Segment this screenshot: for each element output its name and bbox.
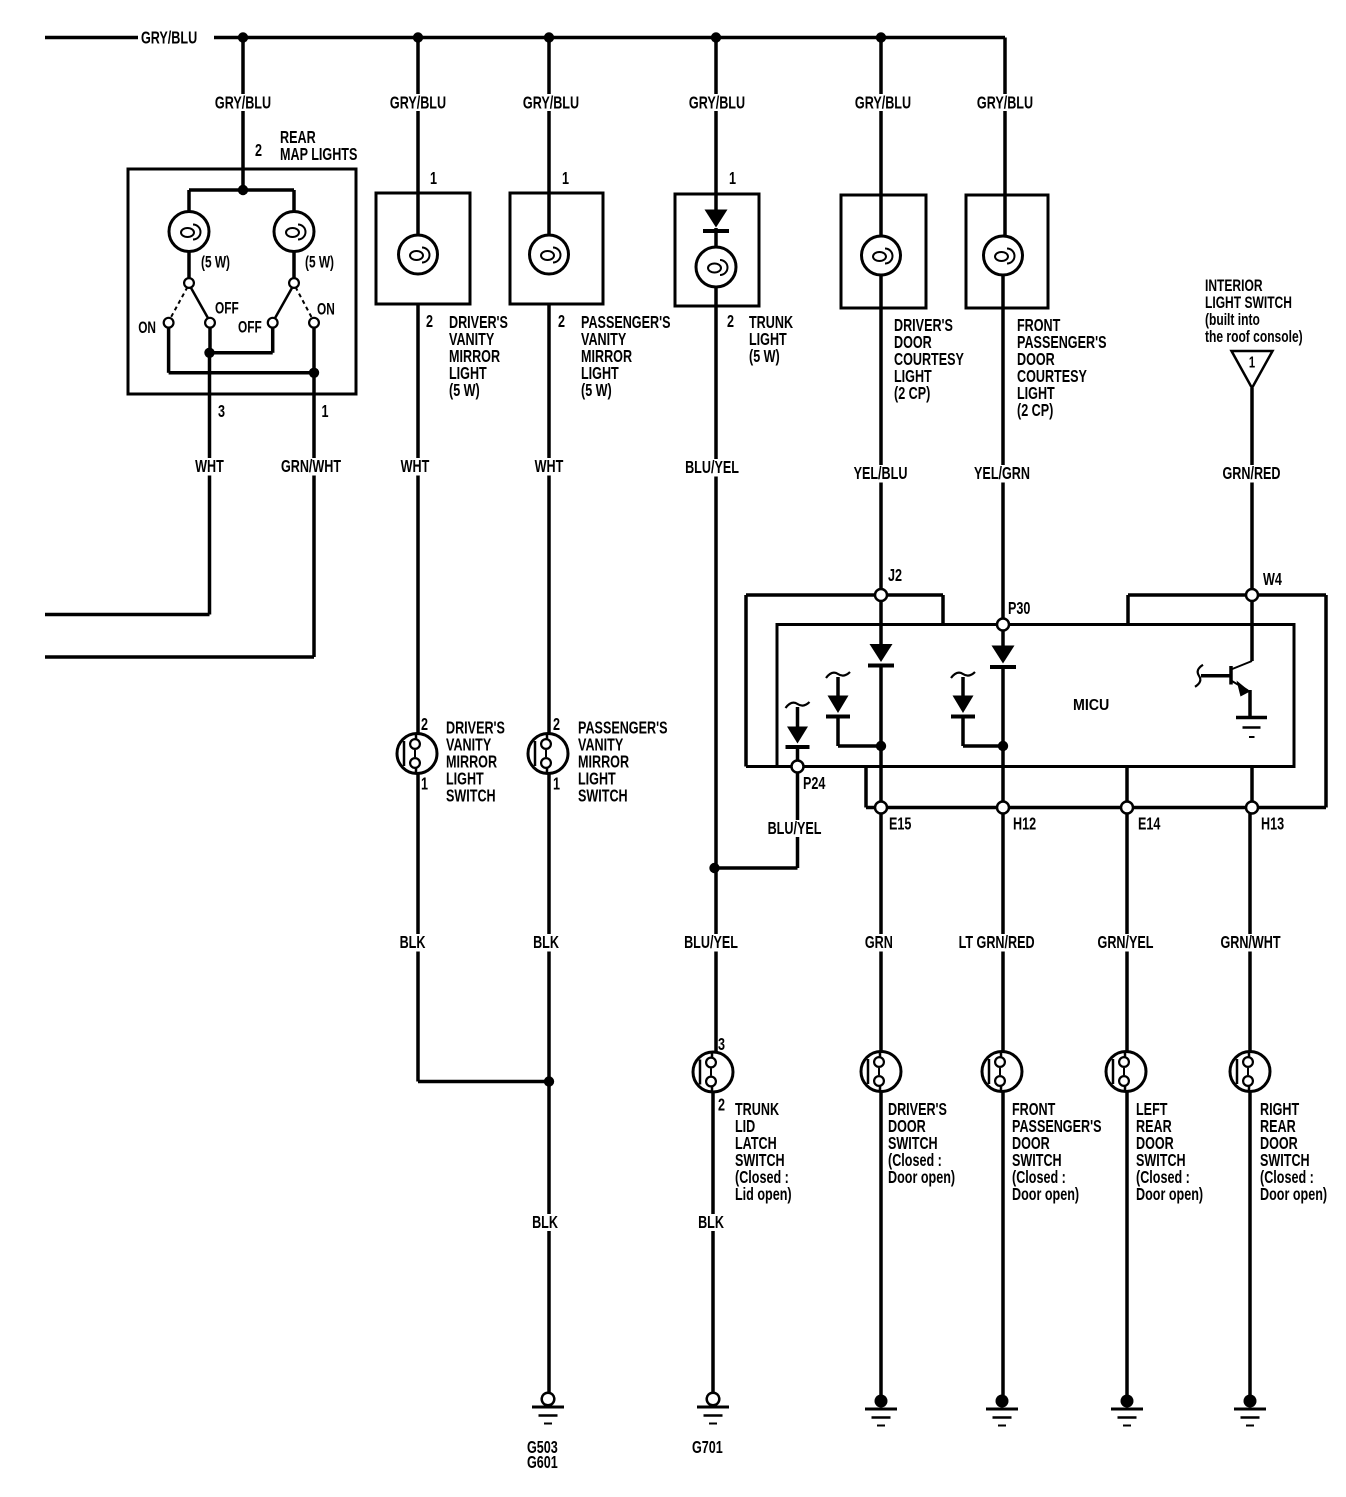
- svg-text:2: 2: [553, 715, 560, 735]
- svg-text:SWITCH: SWITCH: [578, 786, 628, 806]
- svg-text:(2 CP): (2 CP): [1017, 401, 1053, 421]
- svg-text:YEL/GRN: YEL/GRN: [974, 464, 1030, 484]
- svg-text:WHT: WHT: [535, 457, 564, 477]
- svg-text:INTERIOR: INTERIOR: [1205, 277, 1263, 295]
- svg-text:P30: P30: [1008, 599, 1030, 619]
- svg-text:BLU/YEL: BLU/YEL: [768, 819, 822, 839]
- svg-text:OFF: OFF: [215, 300, 239, 318]
- svg-text:3: 3: [218, 402, 225, 422]
- svg-text:H12: H12: [1013, 814, 1036, 834]
- svg-text:G701: G701: [692, 1438, 723, 1458]
- svg-text:GRY/BLU: GRY/BLU: [141, 28, 197, 48]
- svg-text:W4: W4: [1263, 570, 1282, 590]
- svg-text:MICU: MICU: [1073, 696, 1109, 714]
- svg-text:GRN/WHT: GRN/WHT: [1220, 933, 1281, 953]
- svg-text:G601: G601: [527, 1453, 558, 1473]
- svg-text:3: 3: [718, 1035, 725, 1055]
- svg-text:(5 W): (5 W): [305, 254, 334, 272]
- svg-text:Door open): Door open): [1136, 1185, 1203, 1205]
- svg-text:GRY/BLU: GRY/BLU: [523, 93, 579, 113]
- svg-text:1: 1: [553, 774, 560, 794]
- svg-text:J2: J2: [888, 566, 902, 586]
- svg-text:(2 CP): (2 CP): [894, 384, 930, 404]
- svg-text:(built into: (built into: [1205, 311, 1260, 329]
- svg-text:2: 2: [426, 312, 433, 332]
- svg-text:H13: H13: [1261, 814, 1284, 834]
- svg-text:1: 1: [729, 169, 736, 189]
- svg-text:1: 1: [562, 169, 569, 189]
- svg-text:GRN/YEL: GRN/YEL: [1098, 933, 1154, 953]
- svg-text:the roof console): the roof console): [1205, 328, 1303, 346]
- svg-text:ON: ON: [138, 319, 156, 337]
- svg-text:BLU/YEL: BLU/YEL: [685, 458, 739, 478]
- svg-text:GRN/RED: GRN/RED: [1222, 464, 1280, 484]
- svg-text:E15: E15: [889, 814, 912, 834]
- svg-text:BLK: BLK: [698, 1213, 725, 1233]
- svg-text:P24: P24: [803, 774, 826, 794]
- svg-text:2: 2: [558, 312, 565, 332]
- svg-text:(5 W): (5 W): [581, 381, 612, 401]
- svg-text:BLK: BLK: [532, 1213, 559, 1233]
- svg-text:GRY/BLU: GRY/BLU: [390, 93, 446, 113]
- svg-text:GRY/BLU: GRY/BLU: [215, 93, 271, 113]
- svg-text:1: 1: [421, 774, 428, 794]
- svg-text:BLK: BLK: [400, 933, 427, 953]
- svg-text:LT GRN/RED: LT GRN/RED: [959, 933, 1035, 953]
- svg-text:ON: ON: [317, 301, 335, 319]
- svg-text:OFF: OFF: [238, 319, 262, 337]
- svg-text:1: 1: [321, 402, 328, 422]
- svg-text:E14: E14: [1138, 814, 1161, 834]
- svg-text:2: 2: [255, 141, 262, 161]
- svg-text:GRY/BLU: GRY/BLU: [689, 93, 745, 113]
- svg-text:WHT: WHT: [401, 457, 430, 477]
- svg-text:Door open): Door open): [1012, 1185, 1079, 1205]
- svg-text:2: 2: [718, 1095, 725, 1115]
- svg-text:Lid open): Lid open): [735, 1185, 792, 1205]
- svg-text:YEL/BLU: YEL/BLU: [854, 464, 908, 484]
- svg-text:LIGHT SWITCH: LIGHT SWITCH: [1205, 294, 1292, 312]
- svg-text:MAP LIGHTS: MAP LIGHTS: [280, 145, 357, 165]
- svg-text:Door open): Door open): [1260, 1185, 1327, 1205]
- svg-text:(5 W): (5 W): [201, 254, 230, 272]
- svg-text:2: 2: [727, 312, 734, 332]
- svg-text:1: 1: [1249, 352, 1255, 371]
- svg-text:GRY/BLU: GRY/BLU: [855, 93, 911, 113]
- svg-text:GRY/BLU: GRY/BLU: [977, 93, 1033, 113]
- svg-text:GRN: GRN: [865, 933, 893, 953]
- svg-text:(5 W): (5 W): [449, 381, 480, 401]
- svg-text:BLK: BLK: [533, 933, 560, 953]
- svg-text:1: 1: [430, 169, 437, 189]
- svg-text:Door open): Door open): [888, 1168, 955, 1188]
- svg-text:2: 2: [421, 715, 428, 735]
- svg-text:GRN/WHT: GRN/WHT: [281, 457, 342, 477]
- svg-text:(5 W): (5 W): [749, 347, 780, 367]
- svg-text:WHT: WHT: [195, 457, 224, 477]
- svg-text:BLU/YEL: BLU/YEL: [684, 933, 738, 953]
- svg-text:SWITCH: SWITCH: [446, 786, 496, 806]
